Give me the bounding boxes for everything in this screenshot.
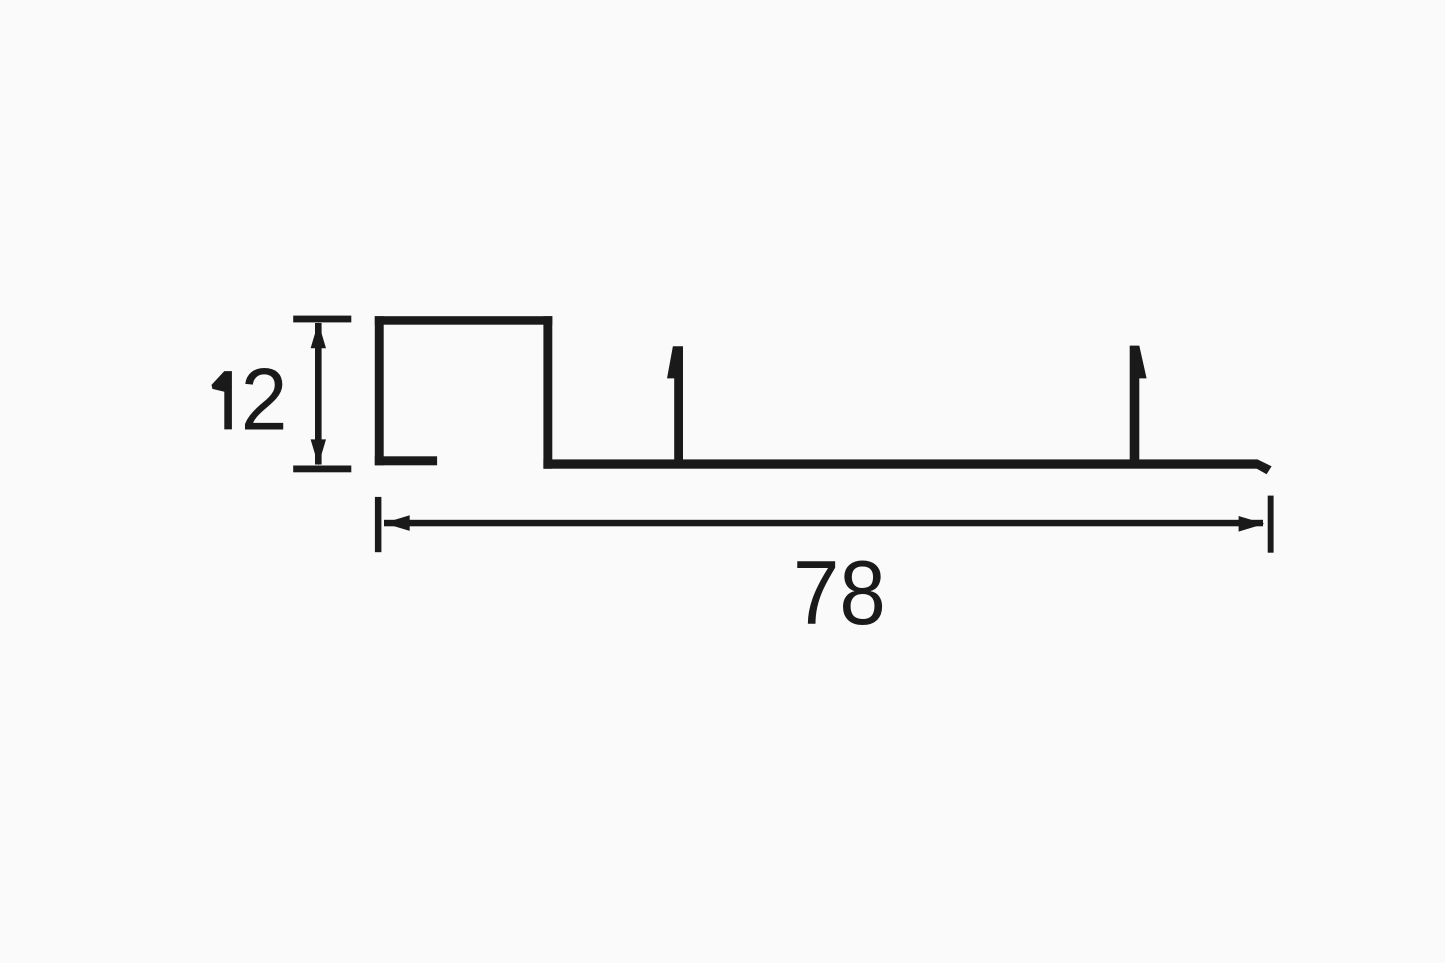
profile bottom lip	[375, 456, 437, 465]
svg-text:78: 78	[793, 543, 886, 644]
profile top flange	[375, 316, 553, 325]
dim 78 left arrow	[384, 515, 410, 531]
dim 12 line	[315, 323, 322, 465]
dim 78 right tick	[1268, 496, 1274, 553]
dim 78 right arrow	[1239, 516, 1265, 532]
dim 78 line	[384, 520, 1263, 527]
profile left wall	[375, 316, 384, 465]
barb 2	[1130, 346, 1147, 463]
dim 12 label digit 1	[212, 371, 232, 429]
profile end kink	[1256, 459, 1271, 474]
dim 12 bottom arrow	[311, 439, 326, 465]
profile base web	[543, 459, 1257, 468]
dim 78 left tick	[375, 497, 382, 552]
svg-text:2: 2	[241, 349, 288, 448]
dim 12 top arrow	[311, 322, 326, 348]
dim 12 top tick	[293, 316, 351, 323]
barb 1	[667, 346, 683, 463]
profile right wall	[543, 316, 552, 469]
dim 12 bottom tick	[293, 466, 351, 473]
